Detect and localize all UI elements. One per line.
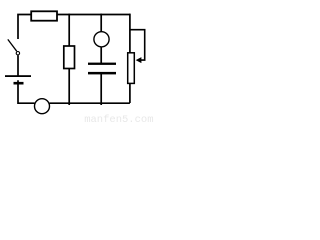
wire: right branch upper xyxy=(129,14,131,53)
wire: rheostat wiper connection xyxy=(130,30,145,60)
wire: voltmeter branch upper xyxy=(100,14,102,32)
capacitor C bottom plate xyxy=(88,72,116,75)
wire: middle branch upper xyxy=(68,14,70,46)
resistor R2 vertical box middle branch xyxy=(64,46,75,69)
switch S pivot xyxy=(16,52,19,55)
rheostat R3 vertical box right branch xyxy=(128,53,135,84)
ammeter A circle xyxy=(35,99,50,114)
wire: top rail right segment xyxy=(57,14,130,16)
wire: middle branch lower xyxy=(68,69,70,106)
wire: capacitor to bottom rail xyxy=(100,74,102,105)
battery negative plate xyxy=(14,82,24,85)
wire: battery to bottom rail corner xyxy=(18,80,35,103)
capacitor C top plate xyxy=(88,63,116,65)
rheostat wiper arrow xyxy=(136,57,142,63)
wire: bottom rail right segment xyxy=(50,102,130,104)
resistor R1 horizontal box on top rail xyxy=(31,11,57,20)
switch S blade xyxy=(8,39,17,51)
wire: switch to battery xyxy=(17,55,19,76)
wire: top rail left segment with corner to switch contact xyxy=(18,15,32,40)
voltmeter V circle xyxy=(94,32,109,47)
wire: right branch lower xyxy=(129,83,131,103)
battery positive plate xyxy=(5,75,31,77)
svg-text:manfen5.com: manfen5.com xyxy=(84,114,153,124)
wire: voltmeter to capacitor xyxy=(100,47,102,64)
